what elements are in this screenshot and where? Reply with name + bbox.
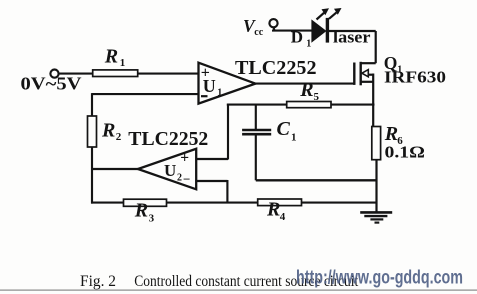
resistor R6 <box>372 127 381 160</box>
wire U1 output to Q1 gate <box>256 83 355 85</box>
capacitor C1 <box>242 105 271 181</box>
label R3 <box>134 200 155 225</box>
svg-text:3: 3 <box>149 212 155 224</box>
svg-text:0V~5V: 0V~5V <box>21 74 82 94</box>
wire U2 output <box>92 168 139 170</box>
svg-text:5: 5 <box>314 91 320 103</box>
wire bottom rail right segment <box>302 202 378 204</box>
laser diode D1 <box>312 18 329 43</box>
svg-text:http://www.go-gddq.com: http://www.go-gddq.com <box>296 268 463 289</box>
resistor R5 <box>287 102 331 108</box>
wire Vcc to D1 <box>272 30 312 32</box>
label 0V~5V <box>21 74 82 94</box>
svg-text:1: 1 <box>217 87 222 98</box>
Vcc terminal <box>269 19 277 31</box>
label laser <box>333 27 371 46</box>
label 0.1 ohm <box>385 143 426 162</box>
wire R1 to U1+ <box>138 73 199 75</box>
svg-text:1: 1 <box>120 57 126 69</box>
svg-text:R: R <box>384 123 398 145</box>
resistor R2 <box>88 116 97 147</box>
wire Q1 source to R6 <box>372 74 374 128</box>
svg-text:2: 2 <box>116 131 122 143</box>
label D1 <box>291 27 312 49</box>
svg-text:U: U <box>164 161 176 180</box>
op-amp U2 <box>138 149 196 190</box>
D1 light arrows <box>317 8 342 20</box>
svg-text:cc: cc <box>254 27 263 38</box>
svg-text:Fig. 2: Fig. 2 <box>80 273 116 290</box>
wire input to R1 <box>59 73 93 75</box>
label TLC2252 (U1) <box>235 58 317 79</box>
wire R6 to ground <box>375 160 377 213</box>
svg-text:1: 1 <box>306 39 311 50</box>
label C1 <box>277 118 297 143</box>
svg-text:R: R <box>299 79 313 101</box>
svg-text:R: R <box>134 200 148 222</box>
svg-text:+: + <box>180 149 189 166</box>
svg-text:U: U <box>203 76 216 96</box>
svg-text:C: C <box>277 118 291 140</box>
wire R5 left segment <box>227 104 287 106</box>
label R4 <box>266 199 286 223</box>
wire bottom rail R3 segment <box>91 202 124 204</box>
svg-text:TLC2252: TLC2252 <box>235 58 317 79</box>
resistor R3 <box>124 199 167 206</box>
svg-text:1: 1 <box>291 131 297 143</box>
svg-text:−: − <box>183 172 190 187</box>
wire D1 cathode to drain <box>329 31 376 63</box>
label R6 <box>384 123 403 147</box>
watermark <box>296 268 463 289</box>
op-amp U1 <box>199 63 256 104</box>
resistor R1 <box>93 70 138 77</box>
wire bottom rail middle segment <box>167 202 259 204</box>
label R2 <box>101 119 122 143</box>
wire R2 to bottom rail <box>91 147 93 204</box>
label R1 <box>104 45 126 69</box>
label R5 <box>299 79 319 103</box>
svg-text:2: 2 <box>177 173 182 184</box>
svg-text:IRF630: IRF630 <box>384 68 446 87</box>
transistor Q1 <box>354 62 375 86</box>
svg-text:R: R <box>266 199 280 221</box>
svg-text:4: 4 <box>280 211 286 223</box>
svg-text:R: R <box>101 119 115 141</box>
wire U2- input <box>196 180 227 203</box>
svg-text:R: R <box>104 45 118 67</box>
caption Fig. 2 <box>80 273 359 290</box>
label IRF630 <box>384 68 446 87</box>
wire R5 right segment <box>331 104 375 106</box>
label TLC2252 (U2) <box>128 129 208 150</box>
wire C1 bottom to ground rail <box>256 179 378 181</box>
svg-text:D: D <box>291 27 303 46</box>
label Vcc <box>243 16 264 38</box>
svg-text:0.1Ω: 0.1Ω <box>385 143 426 162</box>
ground <box>360 212 392 222</box>
input terminal <box>50 70 58 78</box>
label Q1 <box>384 53 403 76</box>
resistor R4 <box>258 199 302 206</box>
svg-text:TLC2252: TLC2252 <box>128 129 208 150</box>
bottom divider line <box>0 289 477 291</box>
wire U2+ input <box>196 104 228 160</box>
wire U1- to R2 <box>92 93 199 116</box>
